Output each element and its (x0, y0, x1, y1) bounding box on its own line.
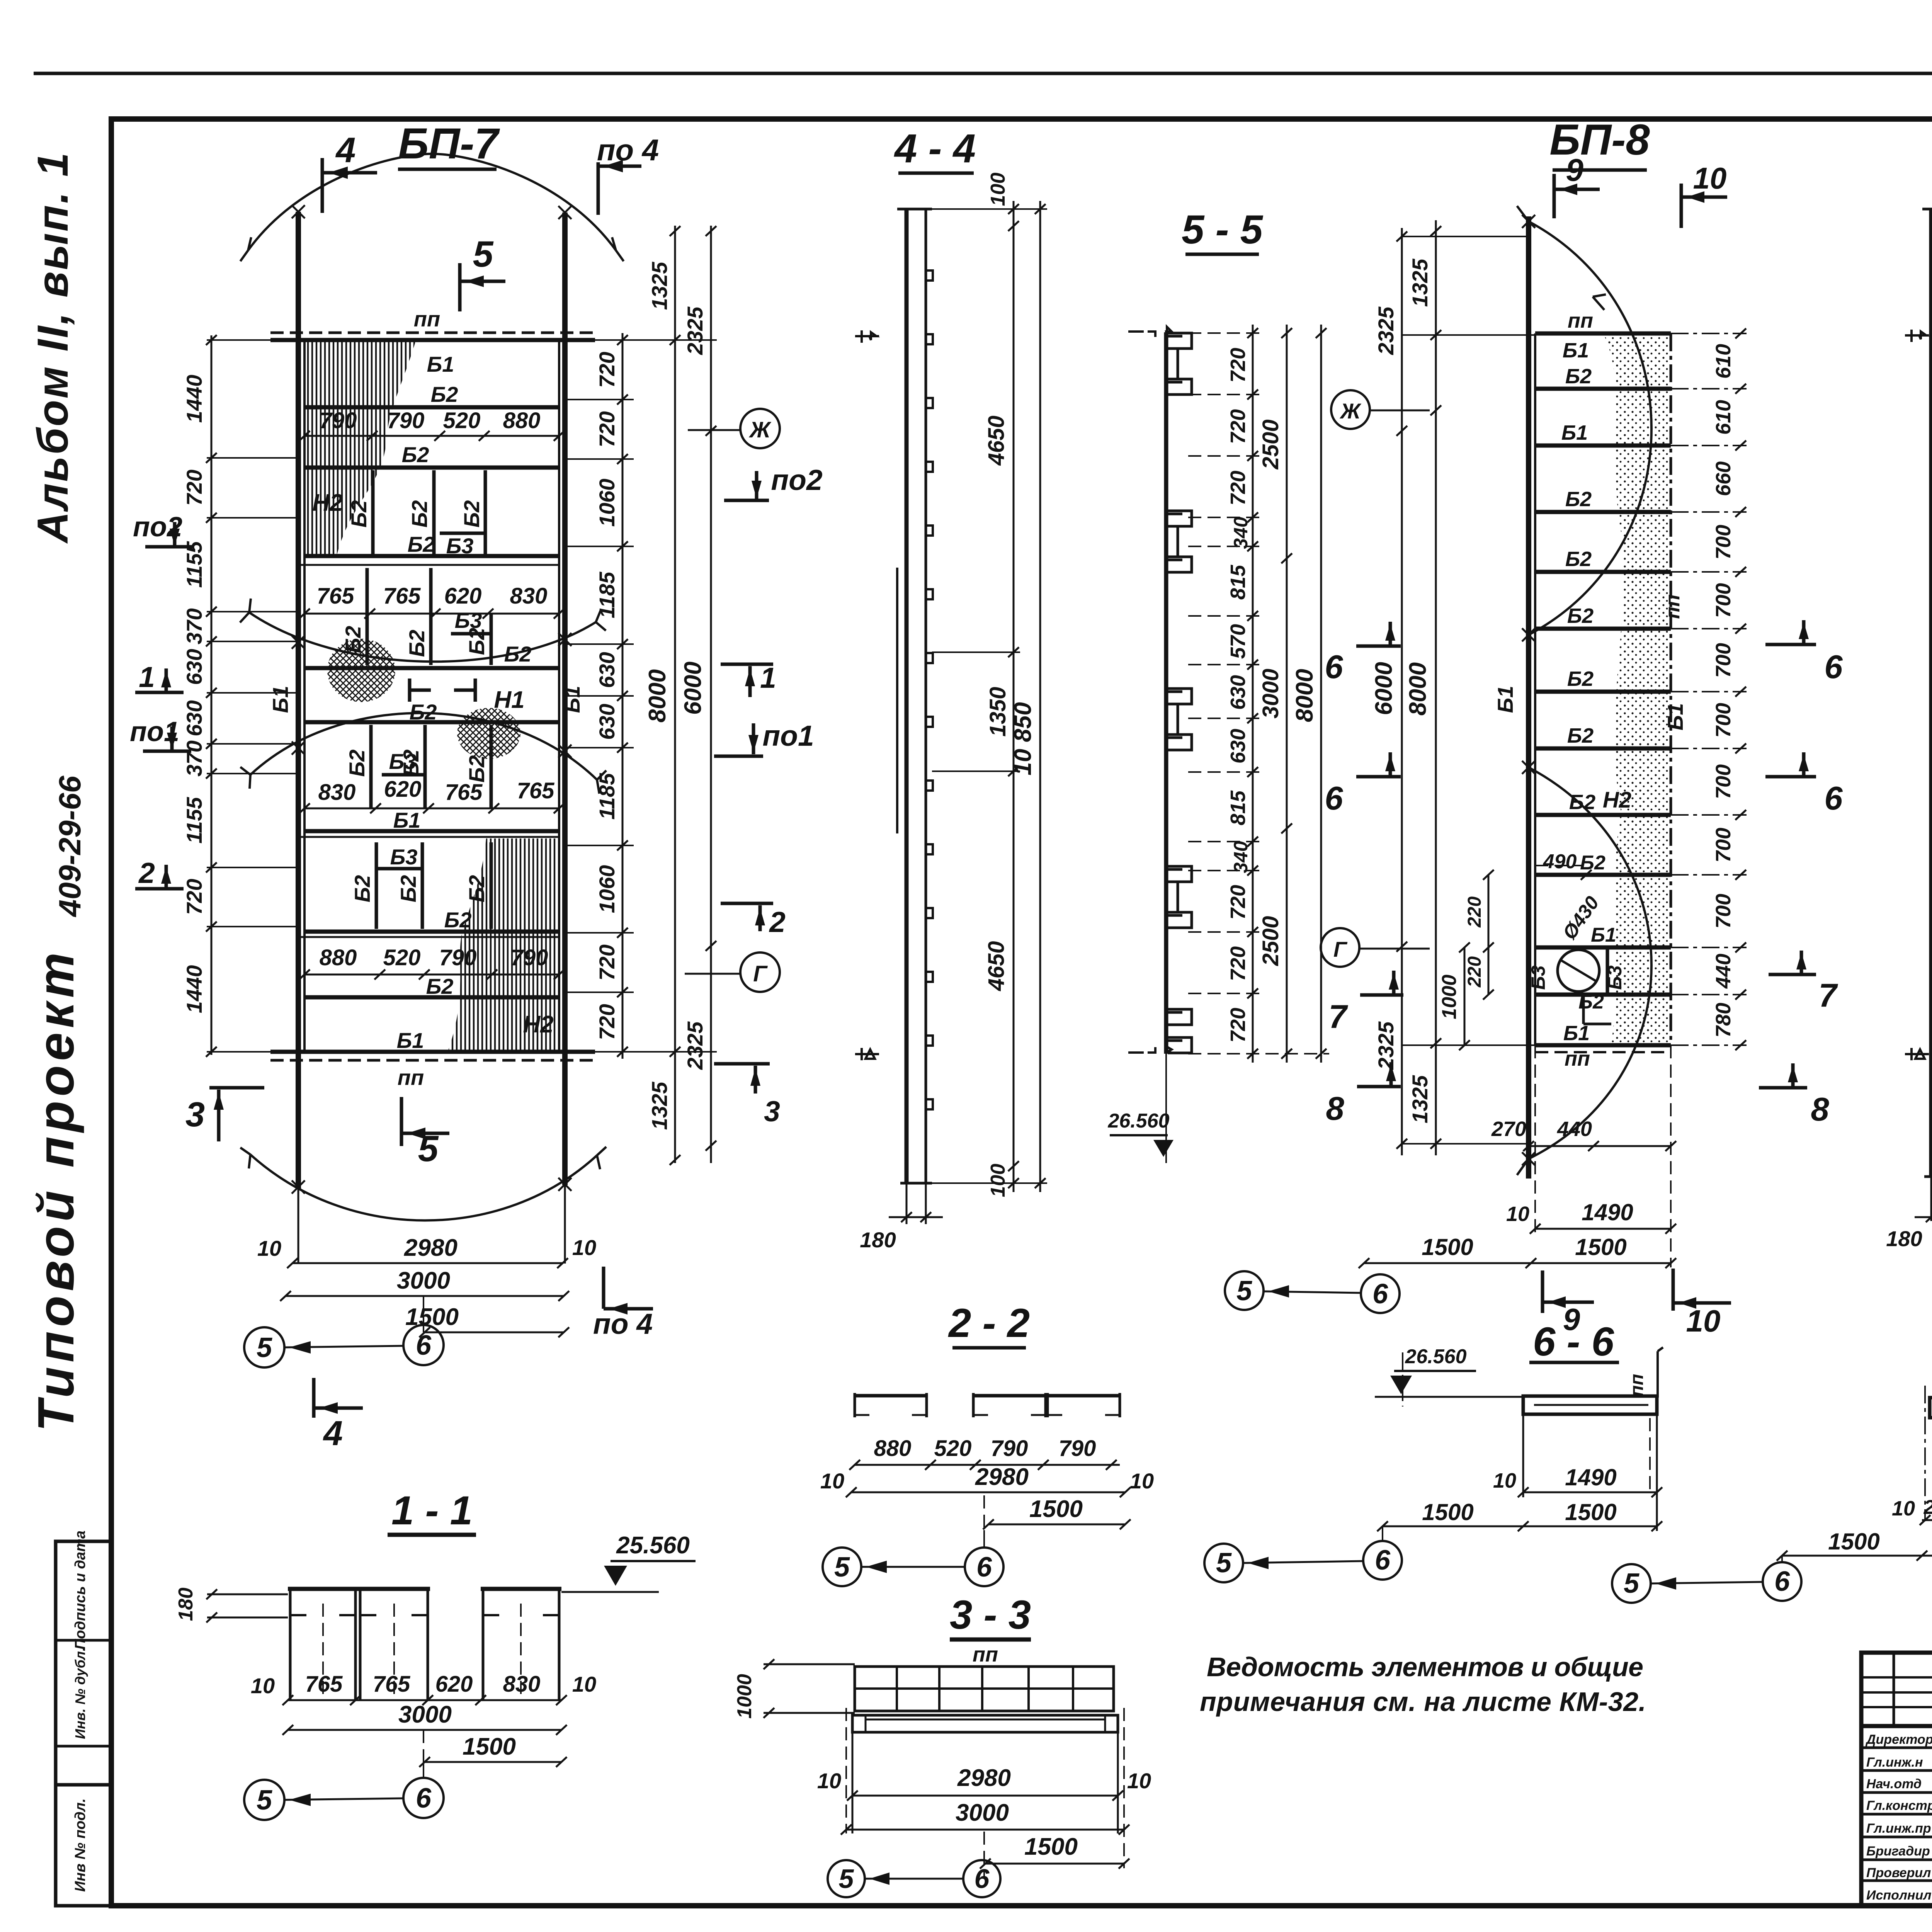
svg-text:Б2: Б2 (408, 532, 435, 556)
margin mini table (56, 1541, 111, 1906)
svg-text:6 - 6: 6 - 6 (1533, 1319, 1614, 1364)
svg-text:720: 720 (1226, 946, 1250, 981)
svg-text:1 - 1: 1 - 1 (391, 1488, 473, 1533)
svg-text:8000: 8000 (1291, 669, 1318, 722)
flag 3 right (714, 1062, 770, 1066)
svg-text:10: 10 (1506, 1202, 1529, 1226)
svg-text:7: 7 (1818, 977, 1838, 1014)
svg-text:1500: 1500 (1422, 1499, 1473, 1525)
svg-text:1155: 1155 (182, 797, 206, 844)
svg-text:Б2: Б2 (1569, 791, 1595, 814)
svg-text:700: 700 (1712, 894, 1735, 929)
svg-text:Гл.инж.н: Гл.инж.н (1866, 1755, 1923, 1770)
beam (1523, 1396, 1657, 1414)
svg-text:Б3: Б3 (1604, 965, 1626, 990)
flag 1 right (721, 663, 773, 666)
main vertical edge beams Б1 (296, 212, 301, 1188)
svg-text:Б3: Б3 (389, 749, 417, 774)
svg-text:по2: по2 (771, 464, 822, 496)
svg-text:1185: 1185 (595, 773, 619, 820)
svg-text:6: 6 (975, 1864, 990, 1894)
svg-text:2325: 2325 (683, 1021, 707, 1070)
svg-text:10: 10 (251, 1673, 275, 1698)
svg-text:4650: 4650 (984, 941, 1009, 991)
svg-text:700: 700 (1712, 764, 1735, 799)
svg-text:610: 610 (1712, 400, 1735, 435)
svg-text:720: 720 (595, 411, 619, 447)
svg-text:5: 5 (418, 1128, 439, 1169)
svg-text:Б1: Б1 (427, 352, 454, 376)
svg-text:4 - 4: 4 - 4 (894, 126, 976, 171)
svg-text:270: 270 (1491, 1117, 1526, 1141)
svg-text:630: 630 (182, 700, 206, 736)
svg-text:6: 6 (416, 1783, 432, 1814)
svg-text:720: 720 (1226, 409, 1250, 444)
section marker 5 (458, 263, 462, 311)
svg-text:630: 630 (595, 652, 619, 688)
svg-text:Н2: Н2 (1603, 787, 1631, 813)
plan top edge (270, 338, 595, 342)
svg-text:пп: пп (414, 307, 440, 331)
inner dim row 765 765 620 830 (304, 613, 559, 615)
svg-text:пп: пп (1662, 594, 1684, 619)
svg-text:Н2: Н2 (523, 1011, 553, 1038)
svg-text:765: 765 (383, 583, 421, 609)
row D vertical beams (375, 842, 378, 929)
svg-text:Б2: Б2 (1567, 667, 1594, 690)
svg-text:пп: пп (1565, 1047, 1590, 1070)
svg-text:1: 1 (760, 662, 776, 694)
plan box edges (1534, 333, 1536, 1045)
svg-text:Б1: Б1 (1493, 686, 1517, 713)
staff table verticals (1893, 1653, 1895, 1726)
svg-text:520: 520 (934, 1436, 972, 1461)
svg-text:6: 6 (1325, 649, 1343, 685)
svg-text:2: 2 (769, 906, 786, 938)
dims (855, 1464, 1120, 1466)
svg-text:по1: по1 (762, 719, 814, 752)
svg-text:370: 370 (182, 608, 206, 644)
svg-text:26.560: 26.560 (1405, 1345, 1466, 1368)
svg-text:1500: 1500 (1828, 1529, 1879, 1554)
svg-text:270: 270 (1923, 1496, 1932, 1519)
flag 2 right (721, 902, 773, 905)
180 bottom (1930, 1177, 1932, 1221)
svg-text:Б2: Б2 (1580, 852, 1605, 874)
svg-text:2325: 2325 (1374, 1021, 1398, 1070)
svg-text:Б2: Б2 (341, 626, 365, 653)
svg-text:790: 790 (439, 945, 477, 970)
svg-text:1440: 1440 (182, 375, 206, 423)
left flags (1905, 330, 1929, 342)
svg-text:790: 790 (991, 1436, 1028, 1461)
svg-text:520: 520 (383, 945, 421, 970)
svg-text:340: 340 (1230, 841, 1252, 873)
svg-text:Гл.констр: Гл.констр (1866, 1798, 1932, 1813)
channels (855, 1394, 1120, 1398)
svg-text:пп: пп (1627, 1374, 1647, 1397)
Г axis circle left (1321, 928, 1359, 967)
svg-text:220: 220 (1464, 896, 1485, 928)
svg-text:100: 100 (987, 173, 1009, 206)
svg-text:5: 5 (1236, 1276, 1252, 1306)
svg-text:5: 5 (473, 234, 494, 275)
svg-text:720: 720 (595, 1004, 619, 1040)
svg-text:1350: 1350 (985, 687, 1010, 736)
пп dashed top (270, 332, 595, 334)
svg-text:3000: 3000 (1258, 668, 1283, 718)
title block (1861, 1594, 1932, 1906)
svg-text:1325: 1325 (647, 262, 672, 310)
svg-text:765: 765 (445, 780, 483, 805)
svg-text:9: 9 (1566, 153, 1583, 188)
beam bar (1930, 1398, 1932, 1418)
svg-text:720: 720 (182, 469, 206, 505)
svg-text:1500: 1500 (1422, 1234, 1473, 1260)
svg-text:220: 220 (1464, 956, 1485, 988)
svg-text:180: 180 (1886, 1226, 1922, 1251)
left dimension chain (211, 335, 213, 1055)
svg-text:830: 830 (503, 1672, 541, 1697)
svg-text:Ж: Ж (748, 417, 772, 442)
section 4-4 (855, 126, 1047, 1252)
svg-text:5 - 5: 5 - 5 (1182, 207, 1264, 252)
section 7-7 (1612, 1277, 1932, 1603)
top silo arc (248, 154, 616, 250)
svg-text:Б2: Б2 (1567, 604, 1594, 628)
svg-text:8: 8 (1811, 1091, 1829, 1128)
marker 9 bottom (1541, 1270, 1544, 1313)
svg-text:пп: пп (1568, 309, 1593, 332)
flag по1 right (752, 723, 755, 754)
svg-text:Инв № подл.: Инв № подл. (72, 1798, 88, 1892)
svg-text:790: 790 (387, 408, 425, 433)
svg-text:520: 520 (443, 408, 481, 433)
svg-text:720: 720 (182, 879, 206, 915)
svg-text:Н1: Н1 (494, 687, 524, 713)
svg-text:8000: 8000 (644, 669, 671, 723)
chain C (1320, 325, 1322, 1063)
inner dim row 790 790 520 880 (304, 435, 559, 437)
svg-text:Ведомость элементов и общие: Ведомость элементов и общие (1207, 1652, 1643, 1682)
svg-text:Б2: Б2 (405, 630, 429, 657)
channels top flanges (288, 1587, 430, 1591)
staff rows (1861, 1747, 1932, 1749)
svg-text:Подпись и дата: Подпись и дата (72, 1531, 88, 1650)
svg-text:700: 700 (1712, 643, 1735, 678)
svg-text:440: 440 (1712, 954, 1735, 989)
dim chain 2 (1039, 201, 1041, 1192)
svg-text:6: 6 (1325, 780, 1343, 817)
svg-text:Б2: Б2 (1565, 365, 1592, 388)
svg-text:Типовой проект: Типовой проект (27, 952, 84, 1432)
dash-dot verticals (1925, 1386, 1932, 1557)
column bars (905, 209, 909, 1183)
svg-text:610: 610 (1712, 344, 1735, 379)
svg-text:10: 10 (1130, 1469, 1154, 1493)
left flags (855, 330, 879, 343)
svg-text:пп: пп (973, 1643, 998, 1666)
right chain 1 (622, 333, 624, 1059)
svg-text:3000: 3000 (398, 1701, 452, 1728)
svg-text:1500: 1500 (1575, 1234, 1626, 1260)
flag 5 bottom (400, 1097, 403, 1146)
svg-text:1000: 1000 (733, 1674, 756, 1719)
section 6-6 (1204, 1319, 1663, 1582)
svg-text:6: 6 (1372, 1279, 1388, 1310)
verticals below (1522, 1414, 1524, 1497)
svg-text:765: 765 (517, 778, 555, 803)
svg-text:2: 2 (138, 857, 155, 889)
svg-text:Гл.инж.пр: Гл.инж.пр (1866, 1821, 1931, 1836)
inner dim row 880 520 790 790 (304, 974, 559, 976)
svg-text:10: 10 (1892, 1497, 1915, 1520)
svg-text:660: 660 (1712, 461, 1735, 496)
right flags 6 6 7 8 (1765, 643, 1816, 646)
svg-text:Альбом II, вып. 1: Альбом II, вып. 1 (29, 153, 77, 544)
svg-text:2325: 2325 (1374, 306, 1398, 355)
section 2-2 (820, 1301, 1154, 1586)
svg-text:790: 790 (320, 408, 357, 433)
svg-text:25.560: 25.560 (616, 1532, 690, 1559)
svg-text:100: 100 (987, 1164, 1009, 1197)
svg-text:5: 5 (1216, 1548, 1232, 1578)
axis circles 5 6 (244, 1327, 284, 1367)
svg-text:5: 5 (1624, 1568, 1639, 1599)
svg-text:Б3: Б3 (1527, 965, 1549, 990)
svg-text:340: 340 (1230, 517, 1252, 549)
svg-text:Б1: Б1 (393, 808, 421, 832)
пп dashed bottom (270, 1059, 595, 1062)
svg-text:630: 630 (595, 704, 619, 740)
svg-text:Б1: Б1 (397, 1028, 424, 1053)
svg-text:830: 830 (510, 583, 548, 609)
grid bar (855, 1667, 1114, 1711)
bottom silo arc (250, 1155, 597, 1221)
bottom dims (1529, 1145, 1671, 1147)
svg-text:5: 5 (839, 1864, 854, 1894)
180 bottom (906, 1183, 908, 1224)
svg-text:Б1: Б1 (1563, 1022, 1590, 1045)
svg-text:880: 880 (874, 1436, 912, 1461)
section 3-3 (733, 1592, 1151, 1897)
svg-text:Б1: Б1 (1561, 421, 1588, 444)
svg-text:8: 8 (1326, 1090, 1344, 1127)
axis circles 5 6 bottom (1225, 1271, 1264, 1310)
svg-text:6: 6 (1824, 649, 1843, 685)
svg-text:Б2: Б2 (426, 974, 454, 998)
svg-text:5: 5 (834, 1552, 850, 1583)
marker 10 top (1680, 184, 1683, 228)
svg-text:3000: 3000 (956, 1799, 1009, 1826)
row A vertical beams (371, 470, 375, 554)
svg-text:5: 5 (257, 1332, 272, 1363)
svg-text:Б1: Б1 (560, 686, 584, 713)
svg-text:1490: 1490 (1565, 1464, 1616, 1490)
svg-text:10: 10 (1127, 1769, 1151, 1793)
staff header rows (1861, 1676, 1932, 1679)
svg-text:620: 620 (444, 583, 482, 609)
svg-text:4650: 4650 (984, 415, 1009, 466)
chain B (1286, 325, 1288, 1063)
svg-text:Б2: Б2 (459, 500, 484, 528)
svg-text:1000: 1000 (1438, 975, 1461, 1019)
svg-text:700: 700 (1712, 525, 1735, 560)
svg-text:490: 490 (1543, 850, 1577, 873)
ext dashed lines to chain (1188, 333, 1329, 1054)
svg-text:2980: 2980 (975, 1464, 1029, 1490)
top corner mark (1128, 327, 1172, 337)
marker 10 bottom (1672, 1269, 1675, 1311)
chain A (1252, 325, 1254, 1063)
svg-text:10: 10 (820, 1469, 844, 1493)
svg-text:3000: 3000 (397, 1267, 450, 1294)
svg-text:180: 180 (860, 1228, 896, 1252)
svg-text:630: 630 (182, 649, 206, 685)
svg-text:700: 700 (1712, 828, 1735, 862)
svg-text:700: 700 (1712, 583, 1735, 618)
svg-text:1500: 1500 (1029, 1496, 1083, 1522)
dim chain 1 (1013, 201, 1015, 1192)
right chain 3 (710, 226, 712, 1163)
svg-text:700: 700 (1712, 703, 1735, 738)
svg-text:6: 6 (1375, 1545, 1391, 1576)
svg-text:630: 630 (1226, 729, 1250, 764)
section marker 4 top (321, 158, 324, 213)
right extension lines (565, 340, 717, 1052)
svg-text:Б2: Б2 (1565, 488, 1592, 511)
svg-text:765: 765 (373, 1672, 411, 1697)
svg-text:2325: 2325 (683, 306, 707, 355)
crosshatch blob Н1 (457, 708, 520, 759)
svg-text:3: 3 (764, 1095, 780, 1128)
svg-text:1325: 1325 (1408, 1075, 1432, 1123)
webs (290, 1589, 559, 1700)
small 1000 / 220 chains bottom left (1464, 947, 1466, 1045)
left extension lines (207, 340, 298, 1052)
svg-text:Б2: Б2 (345, 750, 369, 777)
svg-text:720: 720 (1226, 471, 1250, 505)
svg-text:1490: 1490 (1582, 1199, 1633, 1225)
svg-text:720: 720 (595, 352, 619, 388)
right chain dash-dot ext lines (1671, 333, 1747, 1045)
axis Ж circle (740, 409, 780, 448)
svg-text:880: 880 (320, 945, 357, 970)
svg-text:880: 880 (503, 408, 541, 433)
svg-text:5: 5 (257, 1785, 272, 1816)
svg-text:по 4: по 4 (597, 133, 659, 167)
svg-text:10: 10 (1493, 1469, 1516, 1492)
svg-text:Нач.отд: Нач.отд (1866, 1777, 1922, 1791)
svg-text:1325: 1325 (1408, 259, 1432, 307)
svg-text:790: 790 (1059, 1436, 1096, 1461)
svg-text:1060: 1060 (595, 479, 619, 527)
row B vertical beams (366, 568, 369, 665)
svg-text:6: 6 (1824, 780, 1843, 817)
svg-text:10: 10 (817, 1769, 841, 1793)
svg-text:10: 10 (1693, 161, 1727, 195)
svg-text:Директор: Директор (1865, 1732, 1932, 1747)
marker 9 top (1553, 174, 1556, 218)
svg-text:10: 10 (1686, 1304, 1721, 1338)
svg-text:26.560: 26.560 (1107, 1110, 1169, 1132)
svg-text:1185: 1185 (595, 571, 619, 618)
svg-text:Б2: Б2 (1567, 724, 1594, 747)
svg-text:пп: пп (398, 1065, 424, 1090)
svg-text:765: 765 (305, 1672, 343, 1697)
lower bar (852, 1715, 1118, 1732)
svg-text:1500: 1500 (463, 1733, 516, 1760)
svg-text:Г: Г (1333, 937, 1348, 961)
svg-text:Б3: Б3 (455, 608, 482, 633)
middle arcs (249, 612, 596, 662)
svg-text:Б2: Б2 (464, 755, 489, 783)
svg-text:Б2: Б2 (396, 875, 420, 903)
svg-text:Б2: Б2 (347, 500, 371, 528)
svg-text:Б1: Б1 (1663, 703, 1687, 731)
svg-text:Б2: Б2 (444, 908, 472, 932)
svg-text:1500: 1500 (1024, 1833, 1078, 1860)
left main beam (1526, 216, 1531, 1179)
svg-text:815: 815 (1226, 790, 1250, 825)
svg-text:10 850: 10 850 (1010, 702, 1036, 776)
note text (1200, 1652, 1646, 1717)
svg-text:6: 6 (976, 1552, 992, 1583)
svg-text:Б2: Б2 (464, 875, 489, 903)
svg-text:815: 815 (1226, 565, 1250, 600)
svg-text:1: 1 (139, 661, 155, 693)
svg-text:8000: 8000 (1405, 662, 1431, 716)
inner dim row 830 620 765 765 (304, 808, 559, 810)
svg-text:6: 6 (1774, 1566, 1790, 1597)
svg-text:6000: 6000 (680, 662, 706, 715)
svg-text:Б2: Б2 (402, 442, 429, 467)
flag по2 right (755, 471, 759, 500)
channel clusters (1168, 333, 1192, 1053)
svg-text:620: 620 (384, 777, 422, 802)
section 1-1 (175, 1488, 696, 1820)
БП-8 plan (1225, 116, 1843, 1338)
svg-text:7: 7 (1328, 998, 1348, 1035)
svg-text:Исполнил: Исполнил (1866, 1888, 1932, 1903)
svg-text:по 4: по 4 (593, 1308, 653, 1340)
svg-text:2980: 2980 (404, 1235, 457, 1261)
svg-text:Бригадир: Бригадир (1866, 1844, 1930, 1859)
svg-text:10: 10 (572, 1235, 596, 1260)
svg-text:Б1: Б1 (1563, 339, 1589, 362)
svg-text:6000: 6000 (1371, 662, 1397, 715)
marker 4 bottom (312, 1378, 316, 1418)
БП-7 plan (130, 119, 823, 1453)
svg-text:1060: 1060 (595, 865, 619, 913)
svg-text:2 - 2: 2 - 2 (948, 1301, 1030, 1346)
svg-text:2980: 2980 (957, 1765, 1011, 1791)
svg-text:6: 6 (416, 1330, 432, 1361)
svg-text:1500: 1500 (1565, 1499, 1616, 1525)
svg-text:440: 440 (1557, 1117, 1592, 1141)
svg-text:Б1: Б1 (1591, 924, 1616, 946)
svg-text:1440: 1440 (182, 965, 206, 1014)
svg-text:790: 790 (511, 945, 548, 970)
svg-text:765: 765 (317, 583, 355, 609)
svg-text:Б2: Б2 (350, 875, 374, 903)
hatch bottom-right (448, 838, 558, 1050)
svg-text:4: 4 (323, 1414, 343, 1453)
svg-text:Б3: Б3 (390, 845, 418, 869)
svg-text:Б2: Б2 (431, 382, 458, 406)
svg-text:БП-7: БП-7 (398, 119, 500, 168)
svg-text:570: 570 (1226, 624, 1250, 659)
